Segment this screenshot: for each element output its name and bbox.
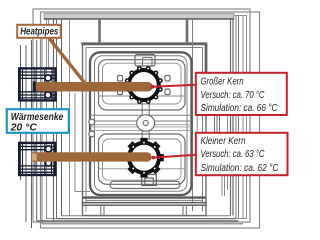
- svg-text:Heatpipes: Heatpipes: [20, 27, 58, 38]
- svg-text:Simulation: ca. 62 °C: Simulation: ca. 62 °C: [201, 163, 280, 174]
- svg-text:Simulation: ca. 66 °C: Simulation: ca. 66 °C: [201, 103, 279, 114]
- svg-text:Großer Kern: Großer Kern: [201, 76, 244, 87]
- svg-text:Versuch: ca. 70 °C: Versuch: ca. 70 °C: [201, 90, 266, 101]
- svg-text:20 °C: 20 °C: [10, 122, 38, 133]
- svg-text:Kleiner Kern: Kleiner Kern: [201, 136, 246, 147]
- svg-text:Versuch: ca. 63 °C: Versuch: ca. 63 °C: [201, 149, 266, 160]
